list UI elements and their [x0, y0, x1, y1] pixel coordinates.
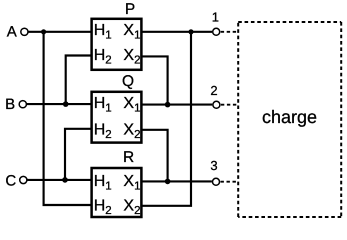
svg-text:1: 1 — [134, 181, 140, 193]
svg-text:X: X — [123, 22, 134, 39]
svg-text:2: 2 — [134, 55, 140, 67]
svg-text:2: 2 — [105, 55, 111, 67]
svg-text:A: A — [7, 23, 17, 40]
svg-text:H: H — [94, 121, 106, 138]
svg-text:3: 3 — [210, 158, 217, 173]
svg-text:1: 1 — [105, 181, 111, 193]
svg-text:H: H — [94, 22, 106, 39]
svg-text:1: 1 — [105, 30, 111, 42]
svg-text:X: X — [123, 47, 134, 64]
svg-text:H: H — [94, 173, 106, 190]
svg-text:2: 2 — [105, 205, 111, 217]
svg-text:P: P — [125, 1, 135, 18]
svg-text:R: R — [123, 149, 134, 166]
svg-text:X: X — [123, 173, 134, 190]
svg-text:H: H — [94, 95, 106, 112]
svg-text:2: 2 — [134, 129, 140, 141]
svg-text:2: 2 — [105, 129, 111, 141]
svg-text:X: X — [123, 121, 134, 138]
svg-text:H: H — [94, 47, 106, 64]
svg-text:H: H — [94, 197, 106, 214]
svg-text:1: 1 — [105, 102, 111, 114]
svg-text:2: 2 — [210, 83, 217, 98]
svg-text:2: 2 — [134, 205, 140, 217]
svg-text:X: X — [123, 197, 134, 214]
svg-text:Q: Q — [122, 73, 134, 90]
svg-text:charge: charge — [262, 107, 317, 127]
svg-text:1: 1 — [134, 102, 140, 114]
svg-text:1: 1 — [134, 30, 140, 42]
svg-text:X: X — [123, 95, 134, 112]
svg-text:1: 1 — [212, 10, 219, 25]
svg-text:B: B — [5, 96, 15, 113]
svg-text:C: C — [5, 173, 16, 190]
